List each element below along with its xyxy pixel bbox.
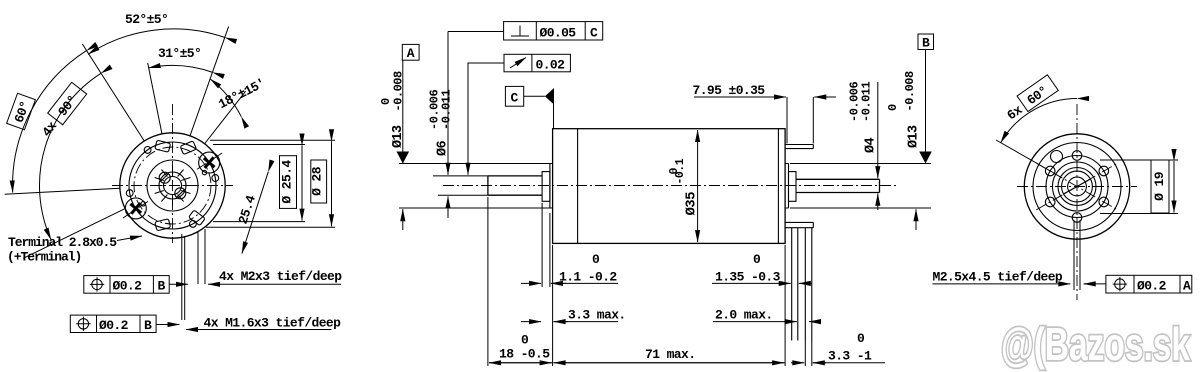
- label 60 deg boxed: [7, 93, 36, 130]
- svg-text:C: C: [590, 26, 598, 41]
- top terminal tab: [785, 145, 813, 149]
- shaft slot: [1064, 179, 1091, 194]
- svg-text:52°±5°: 52°±5°: [125, 12, 168, 27]
- row1: 1.35 -0.3: [712, 282, 783, 284]
- dia19 ext lines: [1100, 160, 1178, 214]
- box dia 25.4: [280, 156, 297, 209]
- ext line shaft end: [487, 197, 489, 366]
- right shaft: [796, 179, 880, 192]
- ext line top for dia 25.4: [213, 144, 305, 146]
- svg-text:Ø13: Ø13: [907, 125, 922, 148]
- terminal leader: [117, 236, 142, 241]
- svg-text:7.95 ±0.35: 7.95 ±0.35: [693, 83, 766, 98]
- svg-text:71 max.: 71 max.: [645, 347, 695, 362]
- svg-text:Ø35: Ø35: [684, 192, 700, 216]
- M1.6x3 leader arrow: [186, 329, 332, 331]
- motor body outline: [553, 129, 786, 244]
- small hole at 22deg: [202, 170, 206, 174]
- bolt hole 270deg: [1072, 213, 1082, 223]
- left view vertical centerline: [172, 104, 174, 243]
- svg-text:A: A: [1183, 279, 1191, 294]
- shaft circle: [164, 177, 182, 195]
- ext lines dia13 right: [790, 164, 931, 209]
- right bearing disc: [785, 164, 788, 209]
- M2.5 leader: [933, 283, 1071, 285]
- terminal rect at 307deg: [189, 210, 206, 226]
- runout leader: [468, 63, 504, 100]
- row3: 71 max: [554, 362, 786, 364]
- radial line R4 52.5deg: [205, 91, 246, 143]
- shaft hub circle: [159, 172, 186, 199]
- inner face circle: [147, 160, 198, 211]
- svg-text:18 -0.5: 18 -0.5: [499, 347, 550, 362]
- radial line R1 122.5deg: [82, 44, 144, 141]
- datum B box: [918, 34, 934, 50]
- hub circle 3: [1062, 171, 1093, 202]
- row2: 3.3 max: [521, 321, 541, 323]
- datum C leader: [524, 95, 545, 97]
- svg-text:4x M2x3 tief/deep: 4x M2x3 tief/deep: [219, 269, 342, 284]
- datum C feature line: [553, 89, 555, 129]
- radial line R2 70.5deg: [190, 27, 229, 136]
- bolt hole 210deg: [1045, 197, 1055, 207]
- svg-text:0: 0: [886, 104, 900, 111]
- FCF perp leader: [448, 31, 504, 33]
- svg-text:2.0 max.: 2.0 max.: [715, 308, 773, 323]
- radial line R6 213deg: [23, 209, 125, 259]
- svg-text:Ø0.05: Ø0.05: [540, 26, 577, 41]
- left view horizontal centerline: [112, 185, 233, 187]
- D-cut hole upper-left: [159, 172, 170, 183]
- outer circle (motor body): [120, 133, 225, 238]
- svg-text:B: B: [158, 279, 166, 294]
- right end cap line: [777, 129, 779, 244]
- M2x3 leader arrow: [208, 283, 341, 285]
- svg-text:Terminal 2.8x0.5: Terminal 2.8x0.5: [8, 235, 117, 250]
- left bearing disc: [550, 164, 553, 209]
- datum C triangle: [545, 89, 554, 105]
- dia6 extension lines: [433, 176, 488, 195]
- flange circle: [1033, 143, 1121, 231]
- datum A triangle: [397, 152, 410, 164]
- svg-text:0.02: 0.02: [536, 58, 566, 73]
- terminal rect at 104deg: [155, 140, 171, 152]
- row3: 18 -0.5: [489, 362, 553, 364]
- index hole: [1051, 151, 1063, 163]
- svg-text:0: 0: [668, 168, 681, 175]
- terminal rect at 256deg: [155, 219, 171, 231]
- svg-text:-0.008: -0.008: [903, 71, 917, 112]
- terminal pin 2: [805, 228, 812, 341]
- svg-text:M2.5x4.5 tief/deep: M2.5x4.5 tief/deep: [933, 270, 1063, 285]
- M2.5 right arrow: [1084, 283, 1096, 285]
- svg-text:Ø4: Ø4: [864, 137, 879, 153]
- datum A box: [402, 44, 419, 60]
- svg-text:B: B: [144, 318, 152, 333]
- ext line body left face: [552, 245, 554, 366]
- dia6 down arrow: [447, 32, 449, 175]
- datum B leader: [925, 50, 927, 164]
- svg-text:-0.011: -0.011: [860, 81, 874, 122]
- label 4x 90 deg boxed: [36, 82, 87, 139]
- svg-text:(+Terminal): (+Terminal): [7, 250, 81, 265]
- right view horizontal centerline: [1017, 186, 1137, 188]
- radial line R5 183deg: [5, 188, 120, 194]
- bolt hole 90deg: [1072, 151, 1082, 161]
- ext line body right face: [784, 245, 786, 366]
- right view diagonal centerline 30-210: [1036, 163, 1117, 210]
- leader to FCF: [1084, 283, 1106, 285]
- svg-text:0: 0: [857, 331, 865, 346]
- hole at 125deg: [144, 147, 151, 154]
- FCF2 position frame: [70, 315, 156, 333]
- svg-text:Ø0.2: Ø0.2: [99, 318, 129, 333]
- left collar: [542, 172, 550, 202]
- svg-text:Ø 25.4: Ø 25.4: [280, 160, 295, 204]
- arc 52deg: [88, 29, 225, 54]
- dia19 dim line: [1173, 161, 1175, 213]
- small hole at 212deg: [141, 202, 145, 206]
- dia13 dim up arrow: [402, 209, 404, 230]
- svg-text:A: A: [407, 46, 415, 61]
- svg-text:4x M1.6x3 tief/deep: 4x M1.6x3 tief/deep: [204, 316, 342, 331]
- datum A leader line: [402, 60, 404, 163]
- terminal pin 1: [792, 228, 798, 341]
- row1: 1.1 -0.2: [521, 282, 541, 284]
- phillips screw lower-left: [125, 198, 146, 219]
- svg-text:31°±5°: 31°±5°: [158, 46, 201, 61]
- arc 31deg: [149, 65, 213, 72]
- radial line R3 101.5deg: [148, 63, 162, 134]
- ext line disc left: [549, 213, 551, 287]
- ext line top for dia 28: [210, 139, 335, 141]
- svg-text:@(Bazos.sk: @(Bazos.sk: [1001, 318, 1190, 370]
- bolt circle: [1046, 156, 1108, 218]
- shaft knurl ticks: [153, 166, 193, 206]
- extension lines pair to FCF1 row: [197, 231, 199, 284]
- terminal rect at 67deg: [180, 141, 196, 155]
- ext line hub left: [541, 203, 543, 287]
- arc 4x90deg: [39, 73, 101, 239]
- arc 60deg: [13, 51, 87, 193]
- ext lines dia13 left: [399, 164, 550, 209]
- bolt circle (dash-dot): [134, 147, 211, 224]
- hole at 10deg: [212, 175, 219, 182]
- oblique dim line 25.4: [242, 172, 268, 254]
- dim line dia 25.4: [301, 146, 303, 221]
- box dia 28: [311, 160, 327, 203]
- main centerline: [443, 185, 897, 187]
- hole at 190deg: [126, 190, 133, 197]
- svg-text:3.3 -1: 3.3 -1: [828, 349, 872, 364]
- svg-text:0: 0: [379, 98, 393, 105]
- right collar: [789, 172, 797, 202]
- dia19 box: [1151, 160, 1169, 213]
- 6x60 label: [1002, 75, 1059, 124]
- bolt hole 30deg: [1099, 166, 1109, 176]
- svg-text:3.3 max.: 3.3 max.: [568, 308, 626, 323]
- hub circle 2: [1058, 168, 1096, 206]
- bottom hole ext lines: [1074, 220, 1080, 290]
- phillips screw upper-right: [199, 152, 220, 173]
- ext line bottom for dia 25.4: [213, 221, 305, 223]
- arc 18deg: [210, 79, 241, 117]
- radial centerline screw 212deg: [122, 201, 148, 218]
- svg-text:Ø0.2: Ø0.2: [113, 279, 143, 294]
- FCF right position frame: [1106, 275, 1192, 293]
- flange circle: [129, 142, 216, 229]
- svg-text:0: 0: [521, 333, 529, 348]
- svg-text:Ø6: Ø6: [436, 140, 451, 156]
- shaft circle: [1068, 177, 1087, 196]
- svg-text:0: 0: [753, 252, 761, 267]
- FCF2 leader arrow: [156, 324, 179, 326]
- right view vertical centerline: [1076, 104, 1078, 300]
- svg-text:1.35 -0.3: 1.35 -0.3: [715, 270, 781, 285]
- 6x60 radial line: [996, 140, 1053, 173]
- FCF1 leader arrow: [169, 283, 188, 285]
- ext line bottom for dia 28: [206, 226, 335, 228]
- svg-text:0: 0: [592, 252, 600, 267]
- row3: 3.3 -1: [791, 362, 804, 364]
- svg-text:B: B: [922, 36, 930, 51]
- left end cap line: [577, 129, 579, 244]
- datum B triangle: [919, 152, 932, 164]
- bolt hole 330deg: [1099, 197, 1109, 207]
- svg-text:1.1 -0.2: 1.1 -0.2: [559, 270, 617, 285]
- hole at 298deg: [190, 221, 197, 228]
- outer circle: [1024, 134, 1129, 239]
- bolt hole 150deg: [1045, 166, 1055, 176]
- svg-text:Ø13: Ø13: [391, 125, 406, 148]
- dia6 up arrow: [447, 196, 449, 218]
- 6x60 arc: [1001, 99, 1077, 143]
- svg-text:C: C: [511, 91, 519, 106]
- FCF1 position frame: [84, 276, 169, 294]
- left shaft: [488, 176, 542, 195]
- row2: 2.0 max: [713, 321, 789, 323]
- right view diagonal centerline 150-330: [1036, 163, 1117, 210]
- svg-text:-0.008: -0.008: [392, 71, 406, 112]
- svg-text:-0.011: -0.011: [440, 89, 454, 130]
- dia13 right dim arrow: [915, 209, 917, 230]
- svg-text:Ø 28: Ø 28: [310, 166, 325, 196]
- dim line dia 28: [331, 141, 333, 226]
- bottom terminal tab: [785, 222, 813, 227]
- hub circle 1: [1053, 162, 1102, 211]
- svg-text:Ø0.2: Ø0.2: [1137, 279, 1167, 294]
- extension lines pair to FCF2 row: [181, 234, 183, 320]
- ext lines 3.3-1: [805, 341, 812, 367]
- D-cut hole lower-right: [175, 188, 186, 199]
- radial centerline screw 32deg: [197, 153, 223, 170]
- datum C box: [505, 86, 523, 106]
- svg-text:Ø 19: Ø 19: [1152, 171, 1167, 201]
